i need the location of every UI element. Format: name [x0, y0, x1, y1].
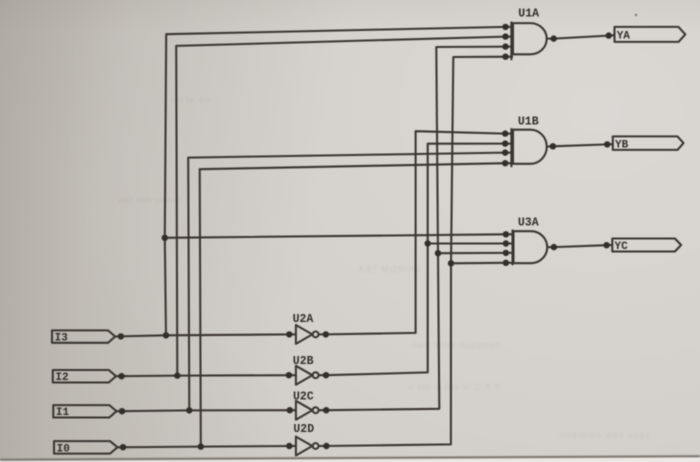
svg-text:I1: I1 — [56, 407, 70, 419]
svg-text:YC: YC — [615, 241, 629, 253]
svg-text:U1B: U1B — [518, 115, 539, 128]
svg-text:I2: I2 — [55, 372, 68, 384]
svg-text:U3A: U3A — [518, 217, 539, 230]
svg-text:U1A: U1A — [518, 7, 539, 20]
svg-text:U2C: U2C — [293, 391, 314, 404]
svg-text:U2B: U2B — [293, 355, 314, 368]
svg-text:I0: I0 — [57, 443, 70, 455]
svg-text:YA: YA — [617, 31, 631, 43]
svg-text:I3: I3 — [55, 332, 69, 344]
svg-text:U2A: U2A — [293, 313, 314, 326]
svg-text:U2D: U2D — [293, 423, 314, 436]
svg-text:YB: YB — [615, 140, 629, 152]
